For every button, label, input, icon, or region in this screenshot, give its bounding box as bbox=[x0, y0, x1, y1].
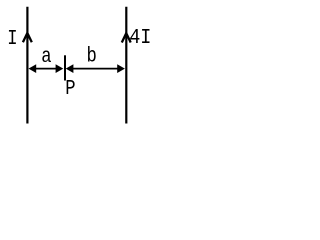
arrowhead right (a, points at P tick) bbox=[56, 64, 64, 73]
svg-text:P: P bbox=[65, 76, 75, 100]
arrowhead left (b, points at P tick) bbox=[66, 64, 74, 73]
current direction arrowhead on left wire bbox=[23, 33, 32, 42]
arrowhead right (b, points at right wire) bbox=[117, 64, 125, 73]
wire: right conductor carrying current 4I bbox=[125, 7, 127, 124]
svg-text:4I: 4I bbox=[129, 26, 151, 51]
dimension arrow a: from left wire to point P bbox=[33, 68, 58, 70]
svg-text:a: a bbox=[41, 44, 52, 68]
dimension arrow b: from point P to right wire bbox=[70, 68, 120, 70]
tick mark at point P bbox=[64, 55, 66, 80]
svg-text:I: I bbox=[7, 26, 17, 50]
current direction arrowhead on right wire bbox=[122, 33, 131, 42]
arrowhead left (a, points at left wire) bbox=[29, 64, 37, 73]
wire: left conductor carrying current I bbox=[26, 7, 28, 124]
svg-text:b: b bbox=[87, 44, 97, 68]
